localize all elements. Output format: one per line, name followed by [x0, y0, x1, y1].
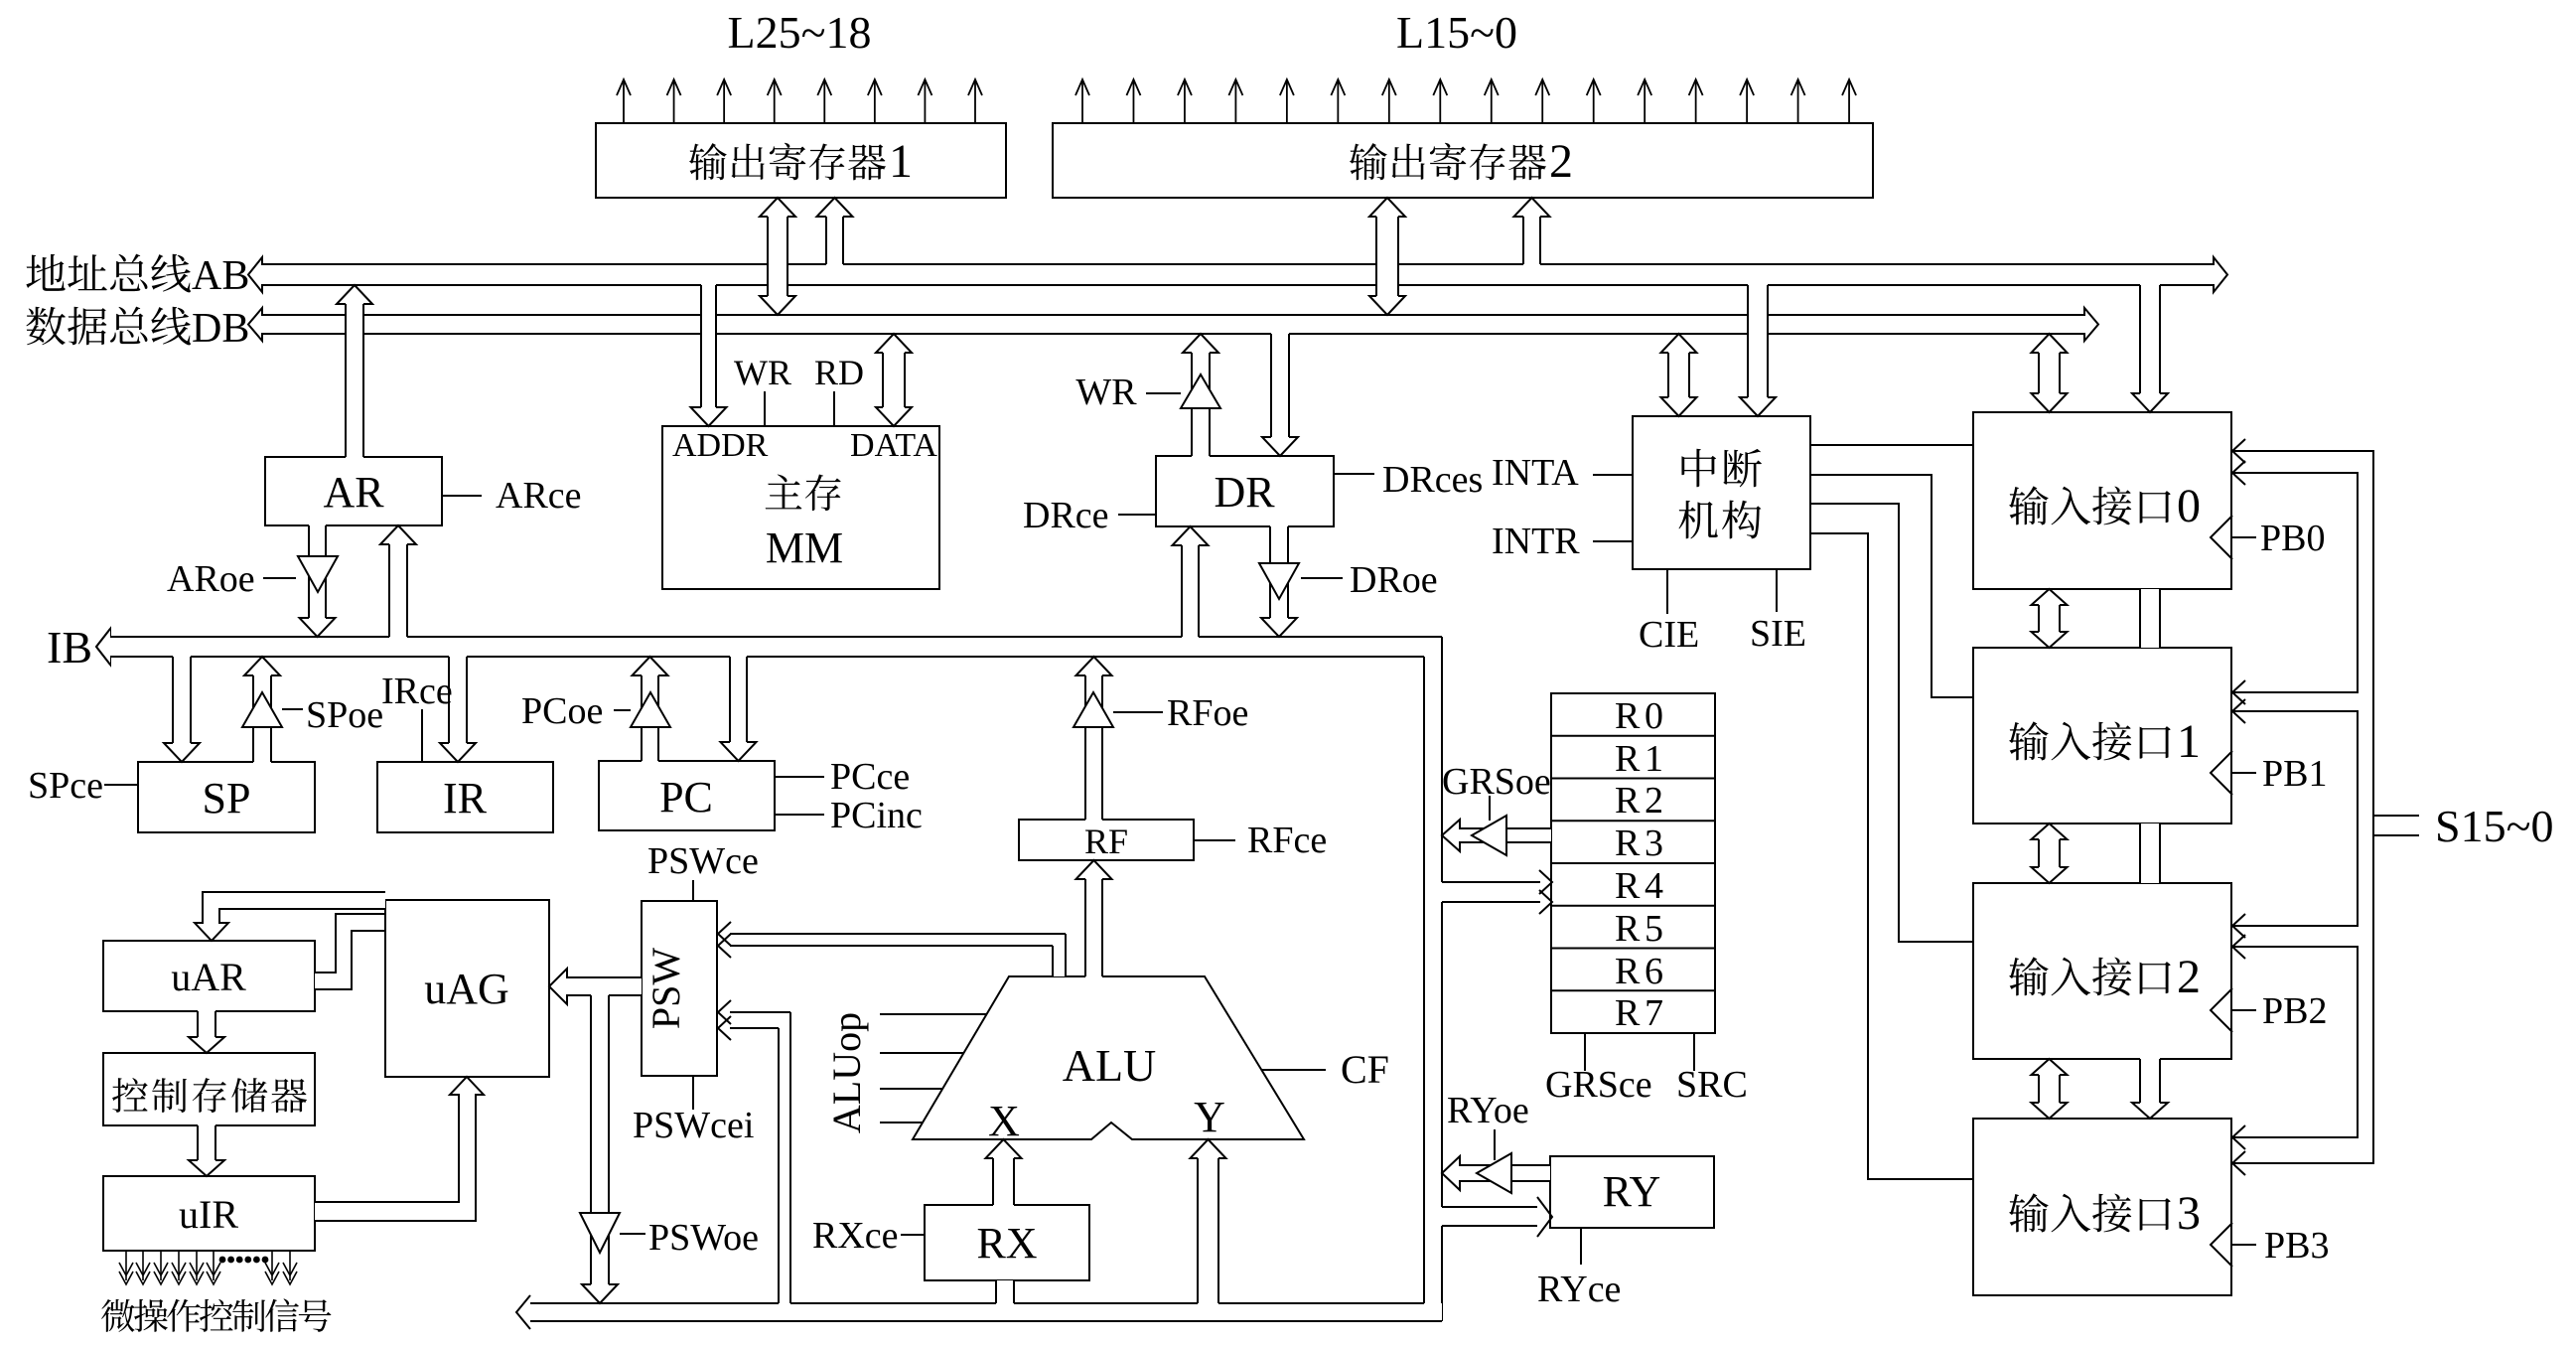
svg-text:SPoe: SPoe	[306, 694, 383, 736]
svg-text:PCoe: PCoe	[521, 690, 603, 732]
svg-text:ADDR: ADDR	[672, 427, 769, 464]
svg-text:0: 0	[1645, 695, 1663, 737]
buffer RYoe (tri-state)	[1477, 1153, 1511, 1193]
wire: DR down to IB through DRoe buffer	[1270, 525, 1288, 619]
tick DRce	[1118, 514, 1156, 516]
wire: interface 2 down into interface 3	[2140, 1058, 2160, 1104]
wire: IB down into IR	[449, 656, 467, 744]
svg-text:ALUop: ALUop	[824, 1012, 869, 1133]
svg-text:PB2: PB2	[2262, 990, 2327, 1032]
wire: AR down to IB through ARoe buffer	[309, 524, 326, 619]
bus AB (address bus) with left/right hollow arrowheads	[248, 257, 2227, 292]
svg-text:PB0: PB0	[2260, 518, 2325, 559]
output bits arrows above output register 1	[623, 81, 625, 123]
svg-text:R: R	[1615, 738, 1641, 780]
svg-text:CF: CF	[1341, 1047, 1389, 1092]
wire: bottom bus up into PSW right (lower)	[718, 1012, 790, 1028]
bottom result bus with left hollow arrowhead	[530, 1303, 1442, 1321]
svg-text:1: 1	[1645, 738, 1663, 780]
tick SRC	[1693, 1033, 1695, 1071]
wire: bottom bus up into ALU Y input	[1198, 1157, 1218, 1304]
svg-text:IRce: IRce	[381, 671, 453, 712]
buffer SPoe (tri-state)	[242, 692, 282, 727]
svg-text:R: R	[1615, 908, 1641, 950]
svg-text:PCinc: PCinc	[830, 795, 923, 836]
svg-text:IB: IB	[47, 622, 92, 673]
svg-text:SRC: SRC	[1676, 1064, 1748, 1106]
wire: interface 1 to interface 2 loop	[2232, 711, 2358, 926]
svg-text:5: 5	[1645, 908, 1663, 950]
svg-text:ARce: ARce	[496, 475, 582, 517]
wire: DB to input interface 0 (double-headed)	[2039, 352, 2060, 394]
wire: interface 1 - interface 2 (double-headed)	[2039, 838, 2060, 868]
svg-text:2: 2	[1549, 135, 1573, 188]
port PB2 chevron and tick	[2211, 988, 2232, 1032]
svg-text:R: R	[1615, 695, 1641, 737]
svg-text:7: 7	[1645, 992, 1663, 1034]
tick PSWcei	[692, 1076, 694, 1110]
svg-text:DRoe: DRoe	[1350, 559, 1438, 601]
svg-text:IR: IR	[443, 774, 488, 823]
wire: SP up to IB through SPoe buffer	[253, 674, 271, 763]
bus IB horizontal segment with left hollow arrowhead	[110, 637, 1442, 657]
tick DRces	[1334, 473, 1374, 475]
tick SPoe	[282, 708, 303, 710]
tick WR buffer	[1146, 392, 1181, 394]
wire: interrupt unit to interface 0	[1810, 444, 1973, 446]
svg-text:uIR: uIR	[179, 1192, 238, 1237]
svg-text:GRSce: GRSce	[1545, 1064, 1652, 1106]
wire: MM DATA to DB (double-headed)	[883, 352, 905, 408]
wire: interface 1 - interface 2 right channel	[2140, 823, 2160, 883]
wire: AB down to MM ADDR	[701, 284, 716, 408]
wire: output register 2 to DB (double-headed)	[1376, 216, 1398, 297]
signal lines ALUop into ALU left slope	[880, 1013, 986, 1015]
wire: PSW left to uAG (hollow arrow)	[549, 969, 642, 1004]
svg-text:AR: AR	[323, 468, 384, 517]
output register 2 box (输出寄存器2)	[1053, 123, 1873, 198]
wire: interface 0 to interface 1 loop	[2232, 473, 2358, 692]
wire: IB down into PC	[730, 656, 747, 743]
wire: RX up into ALU X input	[993, 1157, 1014, 1206]
tick GRSoe	[1489, 796, 1491, 821]
svg-text:DRce: DRce	[1023, 495, 1109, 536]
svg-text:PB1: PB1	[2262, 753, 2327, 795]
wire: control store down to uIR	[198, 1124, 215, 1161]
label 控制存储器	[112, 1078, 148, 1113]
svg-text:PSWcei: PSWcei	[633, 1105, 754, 1146]
svg-text:RYce: RYce	[1537, 1269, 1621, 1310]
svg-text:6: 6	[1645, 951, 1663, 992]
label 输入接口0	[2009, 486, 2049, 524]
svg-text:R: R	[1615, 780, 1641, 822]
tick INTA	[1593, 474, 1633, 476]
control store box (控制存储器)	[103, 1053, 315, 1125]
svg-text:WR: WR	[734, 353, 791, 392]
svg-text:PSWce: PSWce	[647, 840, 759, 882]
svg-text:INTR: INTR	[1492, 521, 1580, 562]
wire: AB up into output register 2	[1523, 216, 1540, 265]
svg-text:2: 2	[2177, 951, 2201, 1003]
main memory MM box (主存)	[662, 426, 939, 589]
svg-text:0: 0	[2177, 480, 2201, 532]
wire: AB down to input interface 0	[2140, 284, 2160, 394]
tick PCoe	[614, 709, 631, 711]
tick PSWce	[692, 880, 694, 901]
svg-text:PSW: PSW	[644, 948, 688, 1029]
tick RFoe	[1113, 711, 1163, 713]
register uAR	[103, 941, 315, 1011]
tick RXce	[901, 1234, 925, 1236]
svg-text:RFce: RFce	[1247, 820, 1327, 861]
svg-text:PCce: PCce	[830, 756, 910, 798]
svg-text:R: R	[1615, 823, 1641, 864]
svg-text:1: 1	[2177, 715, 2201, 768]
tick WR to MM	[764, 391, 766, 426]
svg-text:RD: RD	[814, 353, 864, 392]
register PSW	[642, 901, 717, 1076]
label 微操作控制信号	[101, 1299, 135, 1332]
tick INTR	[1593, 540, 1633, 542]
input interface 0 box (输入接口0)	[1973, 412, 2231, 589]
wire: interface 0 - interface 1 right channel	[2140, 589, 2160, 648]
tick DRoe	[1301, 577, 1343, 579]
bus stub S15~0	[2373, 815, 2419, 817]
svg-text:4: 4	[1645, 865, 1663, 907]
label 地址总线AB	[26, 254, 65, 291]
svg-text:AB: AB	[192, 253, 249, 299]
tick PCinc	[775, 814, 824, 816]
label 输出寄存器1	[689, 143, 727, 180]
svg-text:Y: Y	[1194, 1093, 1225, 1141]
register IR	[377, 762, 553, 832]
tick SPce	[104, 784, 138, 786]
svg-text:S15~0: S15~0	[2435, 801, 2553, 851]
label 输出寄存器2	[1350, 143, 1387, 180]
svg-text:DR: DR	[1214, 468, 1275, 517]
svg-text:INTA: INTA	[1492, 452, 1579, 494]
svg-text:DRces: DRces	[1382, 459, 1483, 501]
buffer ARoe (tri-state)	[298, 556, 338, 592]
svg-text:ALU: ALU	[1063, 1040, 1157, 1091]
tick SIE	[1776, 569, 1778, 612]
register RY	[1550, 1156, 1714, 1228]
register file RF	[1019, 820, 1194, 860]
wire: IB loop tap right into R4 row	[1442, 881, 1540, 883]
svg-text:RY: RY	[1603, 1167, 1661, 1216]
tick GRSce	[1584, 1033, 1586, 1071]
wire: RX bottom to bottom bus	[996, 1280, 1014, 1303]
svg-text:CIE: CIE	[1639, 614, 1699, 656]
tick RYoe	[1494, 1129, 1496, 1160]
tick RYce	[1580, 1228, 1582, 1265]
svg-text:L15~0: L15~0	[1396, 7, 1517, 58]
wire: uIR right up into uAG bottom	[315, 1077, 484, 1221]
register RX	[925, 1205, 1089, 1280]
wire: interface 2 to interface 3 loop	[2232, 947, 2358, 1137]
svg-text:R: R	[1615, 865, 1641, 907]
svg-text:RXce: RXce	[812, 1215, 899, 1257]
wire: interface 2 - interface 3 (double-headed)	[2039, 1074, 2060, 1104]
svg-text:R: R	[1615, 951, 1641, 992]
wire: uAR right into uAG left	[315, 914, 385, 989]
input interface 2 box (输入接口2)	[1973, 883, 2231, 1059]
wire: interrupt unit to interface 1	[1810, 475, 1973, 697]
svg-text:RFoe: RFoe	[1167, 692, 1248, 734]
label 输入接口2	[2009, 957, 2049, 995]
output register 1 box (输出寄存器1)	[596, 123, 1006, 198]
register SP	[138, 762, 315, 832]
svg-text:L25~18: L25~18	[728, 7, 872, 58]
svg-text:uAR: uAR	[171, 955, 246, 999]
svg-text:3: 3	[1645, 823, 1663, 864]
wire: output register 1 to DB (double-headed)	[768, 216, 787, 297]
tick CIE	[1666, 569, 1668, 614]
svg-text:3: 3	[2177, 1187, 2201, 1240]
buffer PSWoe (tri-state)	[580, 1213, 620, 1253]
wire: DB to interrupt unit (double-headed)	[1668, 352, 1689, 398]
wire: uAG left around into uAR top	[203, 892, 385, 909]
svg-text:RF: RF	[1084, 822, 1128, 861]
wire: GRS output left to IB loop (hollow arrow through GRSoe buffer)	[1442, 820, 1551, 851]
buffer PCoe (tri-state)	[631, 692, 670, 727]
input interface 1 box (输入接口1)	[1973, 648, 2231, 823]
general register stack R0-R7	[1551, 693, 1715, 1033]
label 输入接口3	[2009, 1193, 2049, 1232]
label 数据总线DB	[26, 307, 65, 345]
port PB1 chevron and tick	[2211, 751, 2232, 795]
svg-text:DATA: DATA	[850, 427, 937, 464]
wire: PSW output down to bottom bus through PSWoe buffer	[591, 994, 609, 1285]
tick ARoe	[263, 577, 296, 579]
buffer GRSoe (tri-state)	[1472, 816, 1506, 855]
svg-text:WR: WR	[1075, 372, 1137, 413]
tick RD to MM	[833, 391, 835, 426]
svg-text:RX: RX	[976, 1219, 1037, 1268]
wire: IB loop tap right into RY	[1442, 1206, 1537, 1208]
svg-text:GRSoe: GRSoe	[1442, 761, 1551, 803]
input interface 3 box (输入接口3)	[1973, 1119, 2231, 1295]
svg-text:PSWoe: PSWoe	[648, 1217, 759, 1259]
svg-text:R: R	[1615, 992, 1641, 1034]
bus IB right vertical segment down to bottom bus	[1424, 639, 1442, 1321]
tick PCce	[775, 776, 824, 778]
svg-text:uAG: uAG	[424, 965, 509, 1013]
wire: DR up to DB through WR buffer	[1192, 352, 1210, 457]
wire: AR up to AB	[346, 303, 363, 458]
wire: interface 0 - interface 1 (double-headed)	[2039, 604, 2060, 633]
wire: interface 0 to interface 3 outer loop	[2232, 451, 2373, 1163]
svg-text:PC: PC	[659, 773, 713, 822]
wire: interrupt unit to interface 2	[1810, 504, 1973, 942]
label 输入接口1	[2009, 721, 2049, 760]
svg-text:2: 2	[1645, 780, 1663, 822]
ALU trapezoid	[913, 976, 1304, 1139]
wire: IB up into DR	[1182, 544, 1199, 638]
tick ARce	[442, 495, 482, 497]
buffer DRoe (tri-state)	[1259, 563, 1299, 599]
wire: RY output left to IB loop (hollow arrow through RYoe buffer)	[1442, 1156, 1550, 1190]
svg-text:PB3: PB3	[2264, 1225, 2329, 1267]
wire: uAR down to control store	[198, 1010, 215, 1038]
wire: RF up to IB through RFoe buffer	[1085, 674, 1102, 821]
register PC	[599, 761, 775, 830]
wire: ALU output up into RF	[1085, 878, 1102, 977]
tick PSWoe	[620, 1233, 645, 1235]
output bits arrows above output register 2	[1081, 81, 1083, 123]
register DR	[1156, 456, 1334, 526]
micro operation control signal arrows below uIR	[125, 1251, 127, 1280]
label 主存	[766, 475, 802, 510]
svg-text:X: X	[988, 1097, 1020, 1145]
svg-text:RYoe: RYoe	[1447, 1090, 1529, 1131]
wire: ALU flags left into PSW right (upper)	[718, 934, 1066, 946]
svg-text:1: 1	[889, 135, 913, 188]
tick CF from ALU right slope	[1261, 1069, 1326, 1071]
wire: IB up into AR	[389, 543, 407, 638]
micro address generator uAG	[385, 900, 549, 1077]
svg-text:SPce: SPce	[28, 765, 103, 807]
wire: AB up into output register 1	[826, 216, 843, 265]
wire: IB down into SP	[173, 656, 191, 744]
svg-text:DB: DB	[192, 306, 249, 352]
buffer RFoe (tri-state)	[1073, 692, 1113, 727]
wire: interrupt unit to interface 3	[1810, 533, 1973, 1179]
svg-text:ARoe: ARoe	[167, 558, 255, 600]
label 中断机构	[1681, 449, 1716, 487]
tick IRce	[421, 709, 423, 762]
interrupt unit box (中断机构)	[1633, 416, 1810, 569]
svg-text:SIE: SIE	[1750, 613, 1806, 655]
wire: AB down to interrupt unit	[1748, 284, 1768, 398]
buffer WR (tri-state)	[1181, 374, 1220, 408]
register AR	[265, 457, 442, 525]
svg-text:MM: MM	[766, 524, 843, 572]
port PB3 chevron and tick	[2211, 1223, 2232, 1267]
register uIR	[103, 1176, 315, 1251]
bus DB (data bus) with left/right hollow arrowheads	[248, 308, 2098, 341]
wire: PC up to IB through PCoe buffer	[642, 674, 658, 762]
svg-text:SP: SP	[203, 774, 251, 823]
port PB0 chevron and tick	[2211, 516, 2232, 559]
tick RFce	[1194, 839, 1235, 841]
wire: DB down into DR	[1271, 333, 1289, 438]
